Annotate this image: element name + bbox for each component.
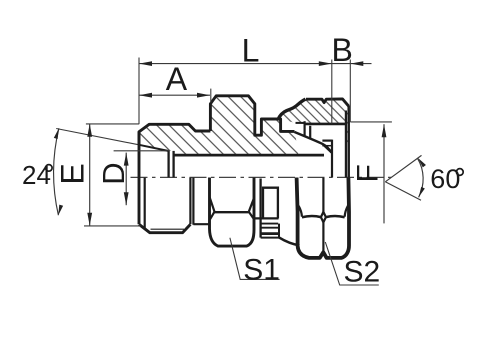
nipple tip face vertical <box>331 140 333 178</box>
arrow F top <box>382 124 387 137</box>
collar bottom <box>193 223 209 225</box>
svg-text:D: D <box>96 162 131 184</box>
nut S2 below centerline outline <box>297 178 349 258</box>
svg-text:E: E <box>55 163 91 184</box>
nut top edge with vee notch <box>306 99 349 106</box>
arrow A left <box>139 93 152 98</box>
extension line E top <box>86 123 139 125</box>
nut internal shoulder <box>305 123 346 126</box>
nut S2 right edge lead-in curve <box>345 206 348 217</box>
arrow D top <box>124 153 129 166</box>
junction rect <box>263 188 278 219</box>
nut face outer line <box>347 106 350 178</box>
dimension line L B <box>139 63 372 65</box>
dimension line E <box>89 124 91 226</box>
hex S1 right edge diamond <box>249 212 254 219</box>
hex S1 outline <box>210 178 255 247</box>
nipple tip slant <box>322 144 331 153</box>
nut S2 corner line lower <box>322 222 324 252</box>
face chamfer line <box>144 178 146 229</box>
nut thread line 2 <box>322 145 332 147</box>
arrow L left <box>139 61 152 66</box>
arrow L right <box>319 61 332 66</box>
extension line D <box>114 150 169 152</box>
dimension line F <box>383 124 385 223</box>
extension line F <box>350 121 392 123</box>
nut S2 left edge lead-in curve <box>299 206 302 217</box>
nut thread line 1 <box>322 140 332 142</box>
svg-text:A: A <box>166 61 188 97</box>
shoulder left stub <box>296 122 305 124</box>
60 deg line upper <box>385 155 421 181</box>
arrow A right <box>197 93 210 98</box>
svg-text:F: F <box>352 164 385 182</box>
nut S2 upper arc right face <box>326 216 345 217</box>
cone end vertical 1 <box>167 151 169 178</box>
arrow E bottom <box>87 213 92 226</box>
nut S2 corner line upper <box>322 178 324 212</box>
hatch area nut section <box>278 99 349 149</box>
dimension line A <box>139 94 210 96</box>
junction line 2 <box>261 227 279 229</box>
hex S1 chamfer slant right <box>249 199 254 212</box>
arrow D bottom <box>124 192 129 205</box>
dimension line D <box>125 153 127 206</box>
thread runout vertical 2 <box>192 178 194 225</box>
svg-text:L: L <box>242 33 260 69</box>
junction line 1 <box>261 223 279 225</box>
junction right vertical <box>278 224 280 238</box>
crimp lip vertical 1 <box>304 121 306 136</box>
extension line left x139 <box>138 58 140 125</box>
arrow 60 top <box>416 157 426 168</box>
extension line B left <box>331 60 333 124</box>
nut face inner line <box>345 111 347 178</box>
leader S2 <box>325 242 379 285</box>
arrow E top <box>87 124 92 137</box>
cone extension line thin <box>56 129 139 145</box>
cone end vertical 2 <box>172 151 174 177</box>
leader S1 <box>230 238 280 280</box>
arrow 60 bottom <box>417 187 425 198</box>
extension line E bottom <box>84 225 141 227</box>
arrow 24 top <box>54 128 61 139</box>
svg-text:60: 60 <box>430 164 460 194</box>
arrow 24 bottom <box>56 205 63 216</box>
extension line B right <box>349 60 351 122</box>
cone line 24deg inside body <box>139 145 169 151</box>
svg-text:S2: S2 <box>344 256 381 289</box>
centerline <box>131 176 397 178</box>
stud bottom chamfer left <box>139 224 190 232</box>
24 deg arc <box>54 128 59 215</box>
body outline left section top <box>139 124 210 145</box>
arrow B right <box>350 61 363 66</box>
60 deg arc <box>418 158 424 197</box>
junction bottom thick <box>260 232 279 235</box>
extension line A right <box>210 89 212 103</box>
crimp curve to nut <box>279 238 299 246</box>
left face <box>138 132 141 225</box>
60 deg line lower <box>385 182 421 200</box>
nipple cone slant <box>295 132 332 153</box>
nut S2 center diamond <box>321 212 326 222</box>
junction step line <box>254 217 279 219</box>
junction vertical left <box>259 179 261 238</box>
svg-text:S1: S1 <box>243 253 280 286</box>
hatch area body section <box>139 96 299 155</box>
nut S2 section top: ogee <box>278 99 306 119</box>
thread runout vertical 1 <box>189 178 191 225</box>
thread root line <box>151 228 185 230</box>
crimp lip vertical 2 <box>309 126 311 140</box>
hex S1 flat top edge <box>215 211 249 213</box>
svg-text:B: B <box>332 32 353 68</box>
bore line <box>174 154 324 157</box>
hex S1 chamfer slant left <box>210 198 215 212</box>
body outline middle hex section <box>210 96 294 135</box>
nut S2 upper arc left face <box>302 216 321 217</box>
